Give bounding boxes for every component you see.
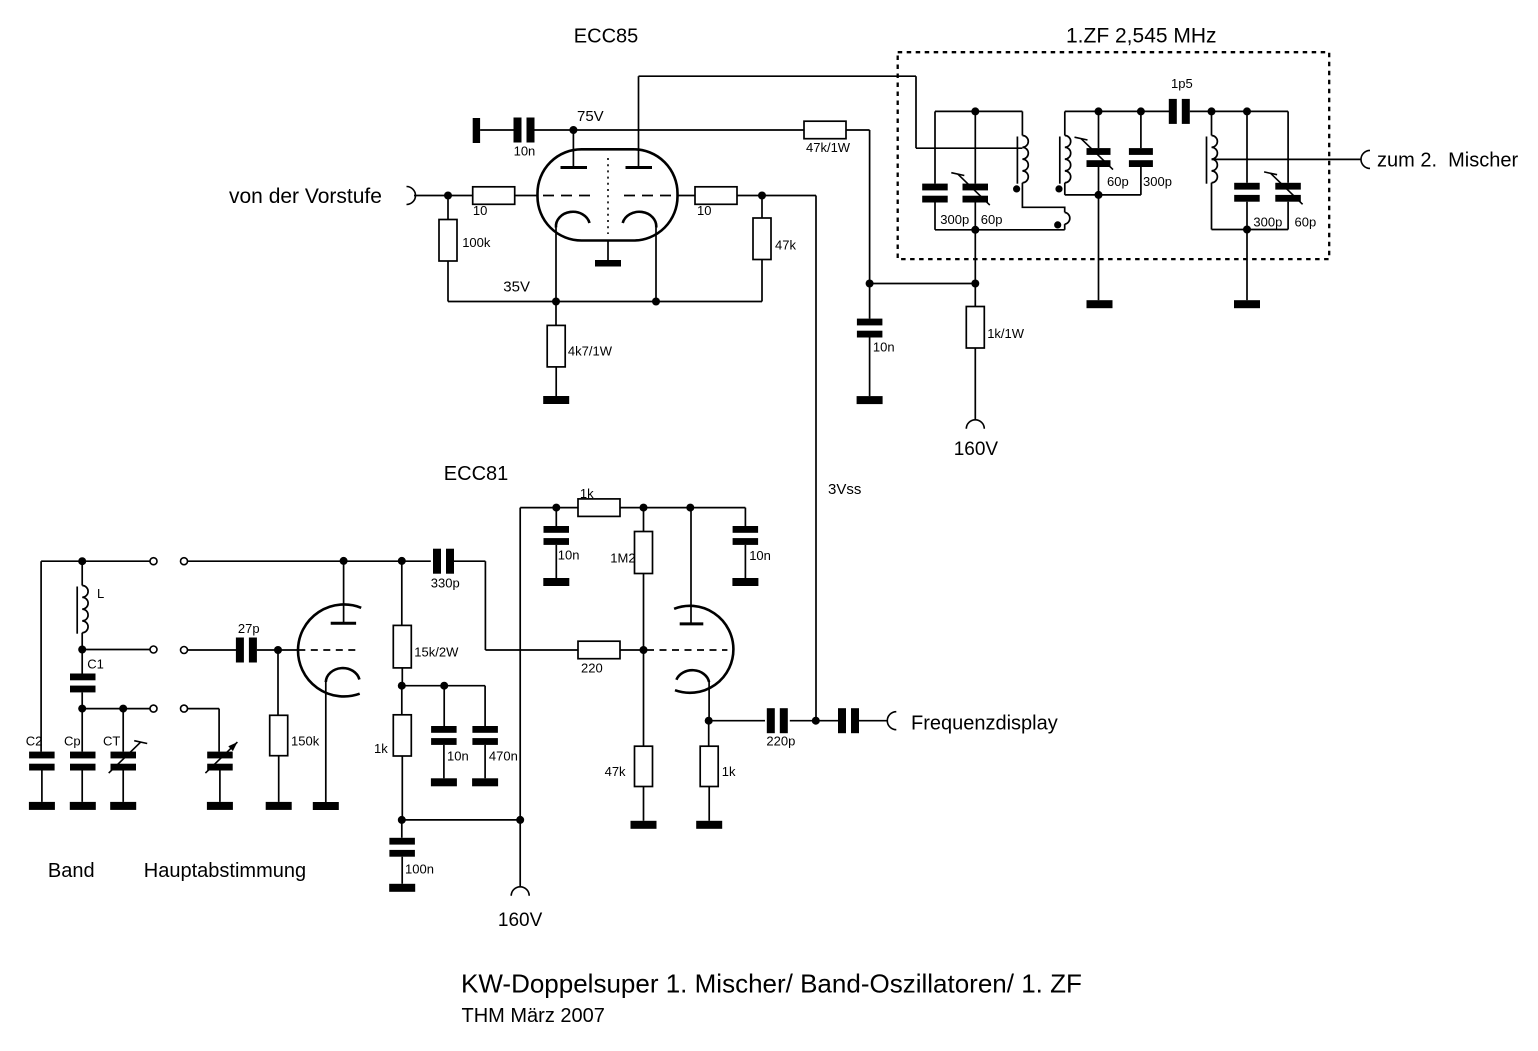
svg-text:3Vss: 3Vss	[828, 481, 861, 498]
svg-text:27p: 27p	[238, 621, 260, 636]
svg-text:10n: 10n	[873, 340, 895, 355]
svg-text:150k: 150k	[291, 733, 320, 748]
svg-text:160V: 160V	[498, 910, 543, 931]
svg-text:10: 10	[697, 203, 711, 218]
svg-text:35V: 35V	[503, 278, 530, 295]
svg-text:100n: 100n	[405, 862, 434, 877]
svg-text:60p: 60p	[1107, 174, 1129, 189]
svg-text:C1: C1	[87, 656, 104, 671]
svg-text:1.ZF 2,545 MHz: 1.ZF 2,545 MHz	[1066, 25, 1217, 48]
svg-text:zum 2. Mischer: zum 2. Mischer	[1377, 149, 1518, 171]
svg-text:100k: 100k	[462, 235, 491, 250]
svg-text:1p5: 1p5	[1171, 76, 1193, 91]
svg-text:1k: 1k	[374, 741, 388, 756]
svg-text:60p: 60p	[1295, 214, 1317, 229]
svg-text:15k/2W: 15k/2W	[414, 645, 459, 660]
svg-text:10: 10	[473, 203, 487, 218]
svg-text:ECC85: ECC85	[574, 26, 638, 48]
svg-text:60p: 60p	[981, 212, 1003, 227]
svg-text:CT: CT	[103, 733, 120, 748]
svg-text:300p: 300p	[1143, 174, 1172, 189]
svg-text:47k/1W: 47k/1W	[806, 140, 851, 155]
svg-text:KW-Doppelsuper 1. Mischer/ Ban: KW-Doppelsuper 1. Mischer/ Band-Oszillat…	[461, 969, 1082, 999]
svg-text:ECC81: ECC81	[444, 463, 508, 485]
svg-text:160V: 160V	[954, 439, 999, 460]
svg-text:470n: 470n	[489, 748, 518, 763]
svg-text:4k7/1W: 4k7/1W	[568, 344, 613, 359]
svg-text:300p: 300p	[940, 212, 969, 227]
svg-text:330p: 330p	[431, 575, 460, 590]
svg-text:L: L	[97, 586, 104, 601]
svg-text:Frequenzdisplay: Frequenzdisplay	[911, 713, 1058, 735]
svg-text:10n: 10n	[514, 143, 536, 158]
svg-text:47k: 47k	[605, 764, 626, 779]
svg-text:300p: 300p	[1253, 214, 1282, 229]
svg-text:75V: 75V	[577, 108, 604, 125]
svg-text:Hauptabstimmung: Hauptabstimmung	[144, 860, 306, 882]
svg-text:1k/1W: 1k/1W	[987, 326, 1025, 341]
svg-text:10n: 10n	[558, 548, 580, 563]
svg-text:47k: 47k	[775, 238, 796, 253]
svg-text:Band: Band	[48, 860, 95, 882]
svg-text:C2: C2	[26, 733, 43, 748]
svg-text:220: 220	[581, 660, 603, 675]
svg-text:THM März 2007: THM März 2007	[462, 1005, 605, 1027]
svg-text:220p: 220p	[766, 733, 795, 748]
svg-text:10n: 10n	[447, 748, 469, 763]
svg-text:von der Vorstufe: von der Vorstufe	[229, 185, 382, 208]
svg-text:1k: 1k	[580, 486, 594, 501]
svg-text:1k: 1k	[722, 764, 736, 779]
svg-text:Cp: Cp	[64, 733, 81, 748]
svg-text:10n: 10n	[749, 548, 771, 563]
svg-text:1M2: 1M2	[610, 551, 635, 566]
